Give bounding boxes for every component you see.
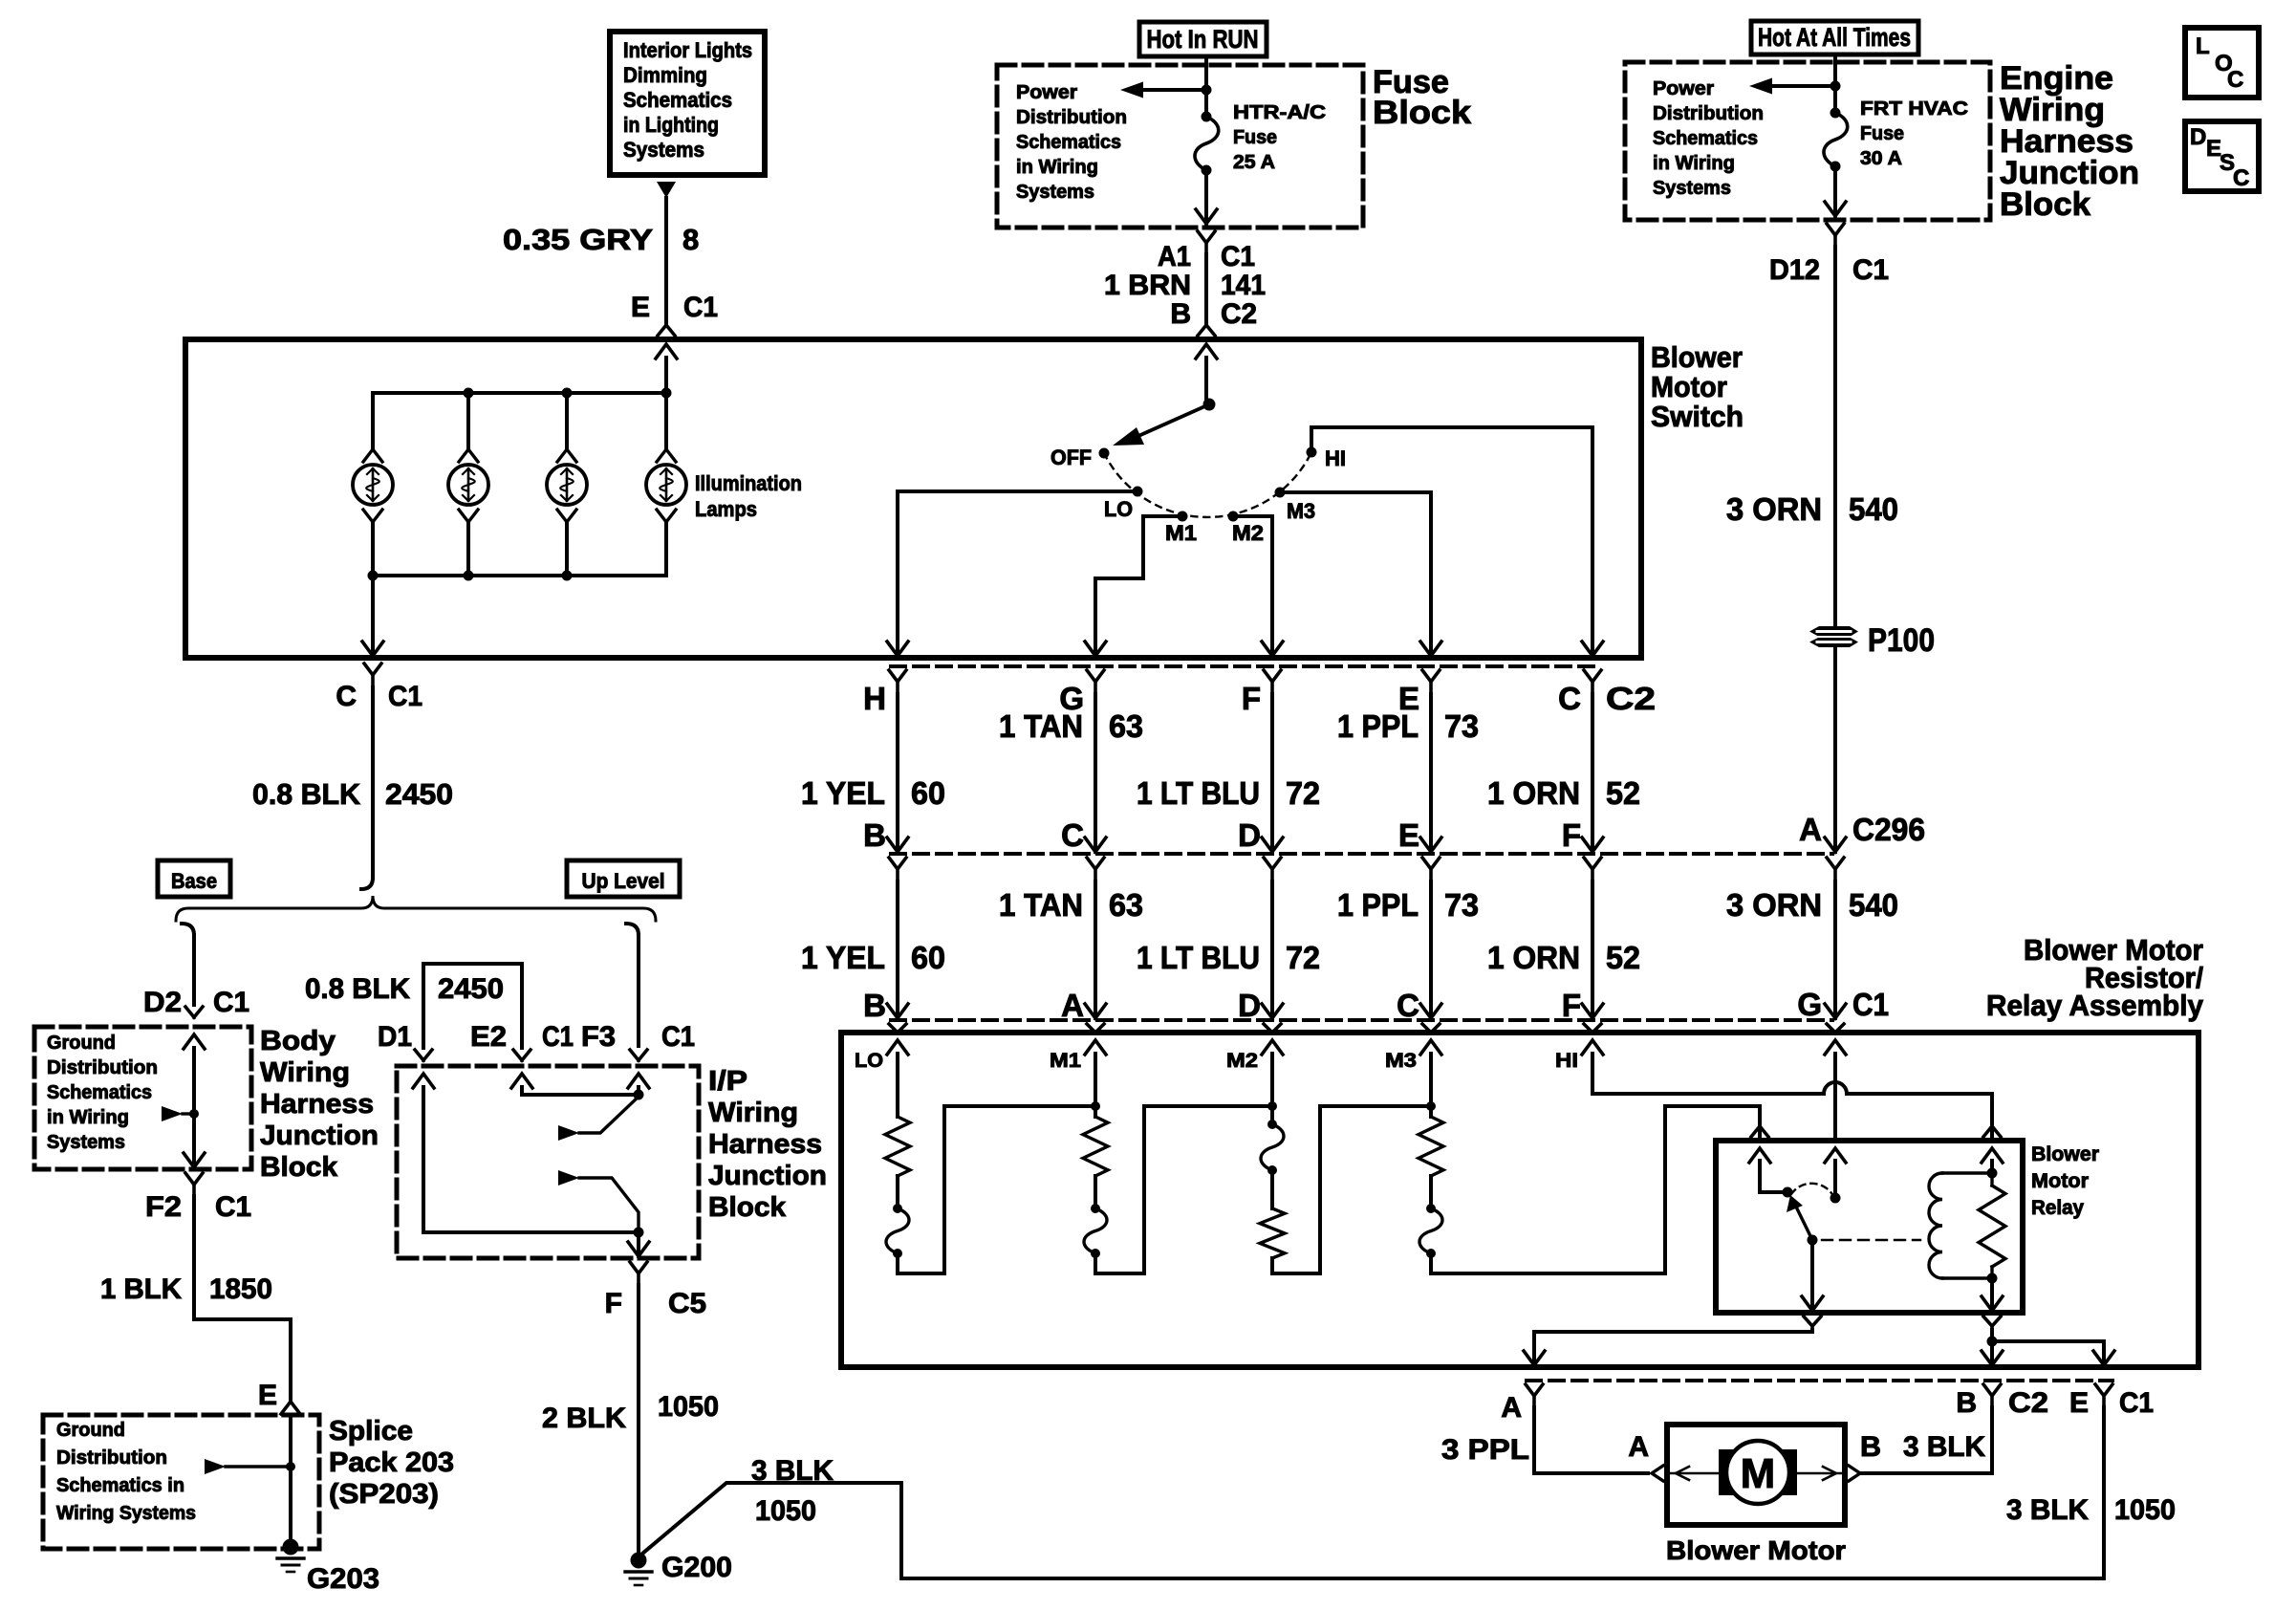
svg-text:Schematics: Schematics: [47, 1082, 152, 1103]
svg-text:Junction: Junction: [708, 1161, 827, 1191]
wire 3 ORN 540 (lower): [1726, 881, 1898, 1018]
svg-text:C1: C1: [388, 681, 422, 712]
svg-text:25 A: 25 A: [1233, 152, 1275, 173]
svg-text:F: F: [1562, 817, 1581, 853]
svg-text:Relay Assembly: Relay Assembly: [1986, 989, 2204, 1022]
svg-text:8: 8: [682, 223, 699, 256]
svg-text:3 BLK: 3 BLK: [751, 1455, 834, 1487]
wire 3 ORN to C296: [1825, 647, 1846, 852]
connector labels D1 E2 C1 F3 C1: [378, 1021, 695, 1060]
power tag: Hot In RUN: [1139, 22, 1267, 56]
connector C1 dashed line (resistor assembly): [891, 1018, 1832, 1022]
svg-text:A: A: [1799, 812, 1822, 847]
svg-text:3 ORN: 3 ORN: [1726, 491, 1822, 527]
wire 1 LT BLU 72 (upper): [1137, 694, 1320, 852]
relay armature: [1787, 1195, 1818, 1246]
svg-text:M3: M3: [1287, 499, 1315, 523]
label C1 (resistor assembly): [1852, 987, 1889, 1022]
svg-text:72: 72: [1286, 940, 1320, 975]
svg-text:Distribution: Distribution: [1653, 103, 1764, 124]
wire M2 contact to pin F: [1233, 516, 1283, 656]
svg-text:Block: Block: [708, 1192, 787, 1223]
bottom connector dashed line: [1527, 1379, 2112, 1382]
lamp top bus: [373, 388, 672, 450]
svg-text:63: 63: [1109, 887, 1143, 923]
svg-text:Relay: Relay: [2031, 1197, 2084, 1219]
body ground wire through box: [184, 1034, 205, 1167]
switch contact OFF: [1051, 446, 1110, 469]
title Engine Wiring Harness Junction Block: [2000, 60, 2139, 223]
svg-text:Wiring: Wiring: [708, 1098, 798, 1128]
pin G of resistor C1: [1797, 987, 1844, 1033]
ground distribution dashed box (splice): [43, 1415, 319, 1549]
svg-text:141: 141: [1221, 270, 1266, 301]
svg-text:73: 73: [1444, 887, 1479, 923]
svg-text:F: F: [1562, 988, 1581, 1023]
svg-text:Power: Power: [1653, 78, 1714, 99]
motor armature line: [1671, 1467, 1841, 1480]
svg-text:C: C: [336, 681, 357, 712]
feed wire hot-in-run into fuse block: [1204, 56, 1208, 117]
svg-text:E: E: [258, 1380, 277, 1411]
svg-text:72: 72: [1286, 775, 1320, 811]
svg-text:C1: C1: [213, 987, 249, 1018]
svg-text:1 YEL: 1 YEL: [801, 940, 885, 975]
wire 1 TAN 63 (upper): [999, 694, 1143, 852]
pin C of C296: [1061, 817, 1104, 881]
svg-text:Schematics: Schematics: [1653, 128, 1758, 149]
pin D of resistor C1: [1238, 988, 1281, 1033]
svg-text:Switch: Switch: [1651, 400, 1744, 433]
pin G of C2: [1059, 670, 1104, 716]
svg-text:C: C: [2233, 165, 2249, 191]
svg-text:1 LT BLU: 1 LT BLU: [1137, 775, 1260, 811]
svg-text:Systems: Systems: [1653, 178, 1731, 199]
continuation arrow from interior-lights box: [657, 182, 676, 198]
svg-text:Base: Base: [171, 869, 217, 893]
svg-text:D2: D2: [143, 987, 182, 1018]
svg-text:Harness: Harness: [708, 1129, 822, 1160]
pin A of resistor C1: [1061, 988, 1104, 1033]
illumination lamp 2: [448, 393, 488, 576]
motor brushes: [1719, 1449, 1797, 1495]
svg-text:Ground: Ground: [56, 1420, 125, 1441]
svg-text:C1: C1: [1852, 987, 1889, 1022]
svg-text:3 PPL: 3 PPL: [1441, 1434, 1529, 1466]
svg-text:1 LT BLU: 1 LT BLU: [1137, 940, 1260, 975]
connector A1 C1 below fuse block: [1158, 231, 1255, 272]
svg-text:1 ORN: 1 ORN: [1487, 940, 1580, 975]
svg-text:A: A: [1501, 1392, 1522, 1424]
pin D of C296: [1238, 817, 1281, 881]
svg-text:Splice: Splice: [329, 1416, 413, 1447]
connector C2 dashed line: [891, 664, 1597, 668]
option box Up Level: [567, 860, 680, 897]
splice wire to ground: [289, 1415, 292, 1541]
svg-text:in Lighting: in Lighting: [623, 113, 719, 137]
wire I/P output to C5: [628, 1232, 649, 1256]
svg-text:Blower Motor: Blower Motor: [1666, 1535, 1846, 1565]
svg-text:3 BLK: 3 BLK: [1903, 1431, 1985, 1463]
caption Blower Motor: [1666, 1535, 1846, 1565]
svg-text:Motor: Motor: [2031, 1170, 2089, 1192]
svg-text:Distribution: Distribution: [47, 1057, 158, 1078]
wire fuse output to C1: [1196, 170, 1217, 224]
svg-text:E: E: [2069, 1387, 2089, 1419]
wire 1 PPL 73 (upper): [1337, 694, 1479, 852]
label Illumination Lamps: [695, 471, 802, 521]
svg-text:D: D: [2190, 124, 2206, 150]
svg-text:Block: Block: [2000, 186, 2090, 223]
svg-text:1050: 1050: [658, 1391, 719, 1423]
svg-text:0.35 GRY: 0.35 GRY: [503, 223, 653, 256]
power tag: Hot At All Times: [1751, 21, 1918, 54]
label motor pin B: [1860, 1431, 1881, 1463]
jumper 0.8 BLK 2450 (D1-E2): [305, 964, 522, 1048]
svg-text:2 BLK: 2 BLK: [542, 1403, 626, 1434]
connector F2 C1: [145, 1173, 251, 1223]
svg-text:1 YEL: 1 YEL: [801, 775, 885, 811]
pin F of C2: [1242, 670, 1281, 716]
svg-text:3 BLK: 3 BLK: [2006, 1494, 2089, 1526]
svg-text:G203: G203: [307, 1563, 379, 1595]
svg-text:M2: M2: [1226, 1050, 1258, 1072]
M3 resistor branch: [1419, 1054, 1760, 1273]
wire 3 BLK 1050 bottom run: [642, 1455, 2104, 1578]
svg-text:Hot At All Times: Hot At All Times: [1758, 23, 1911, 52]
resistor pin M3: [1385, 1040, 1441, 1072]
title Blower Motor Relay: [2031, 1143, 2099, 1219]
svg-text:HI: HI: [1555, 1050, 1578, 1072]
svg-text:HI: HI: [1325, 446, 1346, 470]
connector C296 dashed line: [891, 852, 1832, 856]
wire 1 TAN 63 (lower): [999, 881, 1143, 1018]
pin B of motor C2: [1956, 1384, 2001, 1419]
svg-text:D: D: [1238, 988, 1261, 1023]
svg-text:52: 52: [1606, 775, 1640, 811]
svg-text:Systems: Systems: [47, 1132, 125, 1153]
switch rotor dashed arc: [1104, 452, 1311, 517]
branch arrow inside splice box: [205, 1459, 295, 1474]
svg-text:540: 540: [1849, 887, 1898, 923]
fuse HTR-A/C 25A element: [1195, 112, 1219, 176]
wire 3 PPL to motor A: [1441, 1407, 1663, 1481]
label HTR-A/C Fuse 25 A: [1233, 102, 1326, 173]
svg-text:1050: 1050: [2114, 1494, 2176, 1526]
svg-text:1 TAN: 1 TAN: [999, 708, 1083, 744]
label 0.35 GRY 8: [503, 223, 699, 256]
svg-text:Motor: Motor: [1651, 370, 1727, 403]
svg-text:1 PPL: 1 PPL: [1337, 708, 1419, 744]
base wire to D2: [182, 924, 194, 1005]
svg-text:C: C: [1061, 817, 1084, 853]
relay switched output wire: [1524, 1240, 1823, 1365]
svg-text:Illumination: Illumination: [695, 471, 802, 495]
switch feed wire to wiper pivot: [1196, 344, 1217, 411]
resistor pin M1: [1050, 1040, 1106, 1072]
svg-text:C1: C1: [661, 1021, 695, 1053]
svg-text:Distribution: Distribution: [1016, 107, 1127, 128]
svg-text:C: C: [2227, 67, 2243, 93]
label motor pin A: [1628, 1431, 1649, 1463]
wire M1 contact to pin G: [1085, 516, 1182, 656]
svg-text:in Wiring: in Wiring: [47, 1107, 129, 1128]
svg-text:2450: 2450: [438, 973, 504, 1005]
svg-text:B: B: [1170, 298, 1191, 330]
svg-text:Up Level: Up Level: [582, 869, 665, 893]
fuse FRT HVAC 30A element: [1824, 108, 1848, 172]
svg-text:L: L: [2196, 33, 2210, 59]
svg-text:A: A: [1628, 1431, 1649, 1463]
svg-text:Junction: Junction: [260, 1120, 379, 1151]
connector D12 C1: [1769, 224, 1889, 286]
svg-text:540: 540: [1849, 491, 1898, 527]
svg-text:B: B: [1956, 1387, 1977, 1419]
svg-text:G200: G200: [661, 1552, 732, 1583]
pin F of resistor C1: [1562, 988, 1601, 1033]
lamp bottom bus: [368, 571, 667, 581]
wire 1 ORN 52 (lower): [1487, 881, 1640, 1018]
wire 0.8 BLK 2450 from pin C: [252, 687, 453, 889]
svg-text:M1: M1: [1165, 521, 1197, 545]
pin E of C296: [1398, 817, 1440, 881]
svg-text:P100: P100: [1868, 622, 1935, 659]
wire D1 inside I/P box: [413, 1074, 635, 1232]
svg-text:A1: A1: [1158, 241, 1191, 272]
ground distribution dashed box (body): [34, 1027, 251, 1169]
svg-text:(SP203): (SP203): [329, 1479, 439, 1510]
svg-text:Harness: Harness: [260, 1089, 374, 1120]
wire 1 BLK 1850: [100, 1196, 291, 1400]
wire HI contact to pin C: [1311, 427, 1603, 656]
label C2: [1606, 681, 1656, 716]
svg-text:D: D: [1238, 817, 1261, 853]
relay NO contact feed: [1825, 1148, 1846, 1204]
wire fuse output to engine C1: [1825, 166, 1846, 216]
svg-text:B: B: [1860, 1431, 1881, 1463]
svg-text:Blower: Blower: [1651, 340, 1743, 374]
svg-text:Blower: Blower: [2031, 1143, 2099, 1165]
svg-text:Body: Body: [260, 1026, 336, 1056]
svg-text:0.8 BLK: 0.8 BLK: [252, 777, 361, 811]
connector C C1 below switch: [336, 664, 422, 712]
label C1 (assembly): [2119, 1387, 2154, 1419]
svg-text:63: 63: [1109, 708, 1143, 744]
svg-text:1 PPL: 1 PPL: [1337, 887, 1419, 923]
svg-text:LO: LO: [855, 1050, 883, 1072]
svg-text:E: E: [631, 292, 650, 323]
svg-text:H: H: [863, 681, 886, 716]
M1 resistor branch: [1083, 1054, 1272, 1273]
relay mechanical link dashed: [1822, 1239, 1920, 1241]
svg-text:1 TAN: 1 TAN: [999, 887, 1083, 923]
pin C of C2: [1558, 670, 1601, 716]
svg-text:C296: C296: [1852, 812, 1925, 847]
note ground distribution schematics (body): [47, 1033, 158, 1153]
svg-text:in Wiring: in Wiring: [1653, 153, 1735, 174]
feed wire hot-at-all-times: [1833, 54, 1837, 113]
svg-text:D12: D12: [1769, 254, 1820, 286]
svg-text:C2: C2: [2008, 1387, 2048, 1419]
svg-text:HTR-A/C: HTR-A/C: [1233, 102, 1326, 123]
wire LO contact to pin H: [887, 491, 1137, 656]
up-level wire to F3: [626, 924, 639, 1046]
label FRT HVAC Fuse 30 A: [1860, 98, 1968, 169]
ground G200: [625, 1552, 732, 1585]
illumination lamp 3: [547, 393, 587, 576]
svg-text:E: E: [1398, 817, 1419, 853]
svg-text:30 A: 30 A: [1860, 148, 1902, 169]
svg-text:Block: Block: [1373, 95, 1471, 131]
svg-text:1050: 1050: [755, 1495, 816, 1527]
DESC reference box: [2185, 121, 2259, 191]
label C296: [1852, 812, 1925, 847]
ground G203: [277, 1539, 379, 1596]
svg-text:Schematics in: Schematics in: [56, 1475, 184, 1496]
svg-text:Lamps: Lamps: [695, 497, 757, 521]
pin E of C2: [1398, 670, 1440, 716]
wire M3 contact to pin E: [1280, 492, 1441, 656]
LO resistor branch: [885, 1054, 1095, 1273]
connector F C5: [605, 1262, 706, 1319]
svg-text:E2: E2: [470, 1021, 507, 1053]
option box Base: [158, 860, 230, 897]
svg-text:G: G: [1797, 987, 1822, 1022]
svg-text:C1: C1: [215, 1191, 251, 1223]
svg-text:A: A: [1061, 988, 1084, 1023]
switch contact M2: [1228, 511, 1265, 546]
title Blower Motor Resistor/Relay Assembly: [1986, 933, 2204, 1022]
svg-text:60: 60: [911, 775, 945, 811]
svg-text:Systems: Systems: [1016, 182, 1094, 203]
resistor pin M2: [1226, 1040, 1283, 1072]
pin F of C296: [1562, 817, 1601, 881]
illumination lamp 1: [353, 393, 393, 576]
wire 3 BLK 1050 ground run from pin E: [2006, 1407, 2176, 1578]
svg-text:1850: 1850: [209, 1273, 272, 1305]
svg-text:C: C: [1558, 681, 1581, 716]
svg-text:3 ORN: 3 ORN: [1726, 887, 1822, 923]
svg-text:OFF: OFF: [1051, 446, 1092, 469]
wire 1 YEL 60 (upper): [801, 694, 945, 852]
relay coil output wire: [1982, 1278, 2114, 1365]
label 3 ORN 540 (upper): [1726, 491, 1898, 527]
LOC reference box: [2185, 28, 2259, 98]
title Fuse Block: [1373, 64, 1471, 131]
wire 3 ORN 540 from engine block to P100: [1833, 247, 1837, 626]
switch wiper arm: [1113, 404, 1209, 446]
note ground distribution schematics (splice): [56, 1420, 196, 1524]
svg-text:2450: 2450: [385, 777, 453, 811]
note power distribution schematics (engine box): [1653, 78, 1764, 199]
battery ORN wire into relay contact: [1825, 1040, 1846, 1141]
svg-text:C2: C2: [1606, 681, 1656, 716]
wire 1 ORN 52 (upper): [1487, 694, 1640, 852]
svg-text:B: B: [863, 817, 886, 853]
wire lamps to pin C: [362, 576, 383, 658]
pass-through grommet P100: [1809, 626, 1858, 647]
pin B of resistor C1: [863, 988, 906, 1033]
wire 2 BLK 1050 to G200: [542, 1285, 719, 1552]
branch arrow upper inside I/P box: [558, 1097, 639, 1141]
svg-text:M: M: [1741, 1450, 1776, 1497]
I/P junction dashed box: [397, 1066, 699, 1258]
svg-text:Interior Lights: Interior Lights: [623, 38, 752, 62]
svg-text:Schematics: Schematics: [1016, 132, 1121, 153]
svg-text:1 BLK: 1 BLK: [100, 1273, 182, 1305]
connector B C2 at switch: [1170, 298, 1257, 336]
svg-text:C1: C1: [542, 1021, 574, 1053]
branch arrow to power distribution (engine box): [1749, 78, 1841, 95]
svg-text:52: 52: [1606, 940, 1640, 975]
svg-text:Schematics: Schematics: [623, 88, 732, 112]
svg-text:C2: C2: [1221, 298, 1257, 330]
wire 1 BRN 141: [1104, 254, 1266, 323]
blower motor box: [1667, 1425, 1845, 1525]
wire E2 inside I/P box: [511, 1074, 635, 1095]
svg-text:Fuse: Fuse: [1860, 123, 1904, 144]
label P100: [1868, 622, 1935, 659]
svg-text:F: F: [605, 1288, 622, 1319]
branch arrow to power distribution (fuse block): [1120, 82, 1212, 98]
switch contact M1: [1165, 511, 1197, 546]
title I/P Wiring Harness Junction Block: [708, 1066, 827, 1223]
svg-text:Block: Block: [260, 1152, 338, 1183]
relay coil: [1929, 1173, 1992, 1278]
svg-text:FRT HVAC: FRT HVAC: [1860, 98, 1968, 120]
svg-text:Hot In RUN: Hot In RUN: [1147, 25, 1259, 54]
svg-text:D1: D1: [378, 1021, 412, 1053]
svg-text:60: 60: [911, 940, 945, 975]
M2 resistor branch: [1260, 1054, 1431, 1273]
connector E C1 at switch: [631, 292, 718, 336]
svg-text:F2: F2: [145, 1191, 182, 1223]
pin C of resistor C1: [1397, 988, 1440, 1033]
engine junction dashed box: [1625, 62, 1990, 220]
connector E at splice pack: [258, 1380, 300, 1414]
relay common entry: [1749, 1126, 1793, 1198]
svg-text:C1: C1: [1221, 241, 1255, 272]
svg-text:0.8 BLK: 0.8 BLK: [305, 973, 410, 1005]
svg-text:1 ORN: 1 ORN: [1487, 775, 1580, 811]
svg-text:C1: C1: [1852, 254, 1889, 286]
switch contact M3: [1275, 488, 1316, 524]
branch arrow inside body ground box: [162, 1106, 199, 1121]
svg-text:M2: M2: [1232, 521, 1264, 545]
blower motor relay box: [1716, 1141, 2023, 1313]
svg-text:M1: M1: [1050, 1050, 1081, 1072]
svg-text:Power: Power: [1016, 82, 1077, 103]
svg-text:C5: C5: [668, 1288, 706, 1319]
title Body Wiring Harness Junction Block: [260, 1026, 379, 1183]
svg-text:I/P: I/P: [708, 1066, 747, 1097]
svg-text:1 BRN: 1 BRN: [1104, 270, 1191, 301]
switch contact LO: [1104, 487, 1143, 522]
resistor pin LO: [855, 1040, 908, 1072]
trim-level brace: [176, 896, 656, 921]
title Blower Motor Switch: [1651, 340, 1744, 433]
note power distribution schematics (fuse block): [1016, 82, 1127, 203]
pin B of C296: [863, 817, 906, 881]
svg-text:Systems: Systems: [623, 138, 704, 162]
svg-text:Pack 203: Pack 203: [329, 1447, 454, 1478]
svg-text:C1: C1: [2119, 1387, 2154, 1419]
blower motor resistor/relay assembly box: [841, 1033, 2199, 1367]
label C2 (motor): [2008, 1387, 2048, 1419]
wire 1 LT BLU 72 (lower): [1137, 881, 1320, 1018]
pin A of motor C2: [1501, 1384, 1543, 1424]
connector D2 C1: [143, 987, 249, 1018]
